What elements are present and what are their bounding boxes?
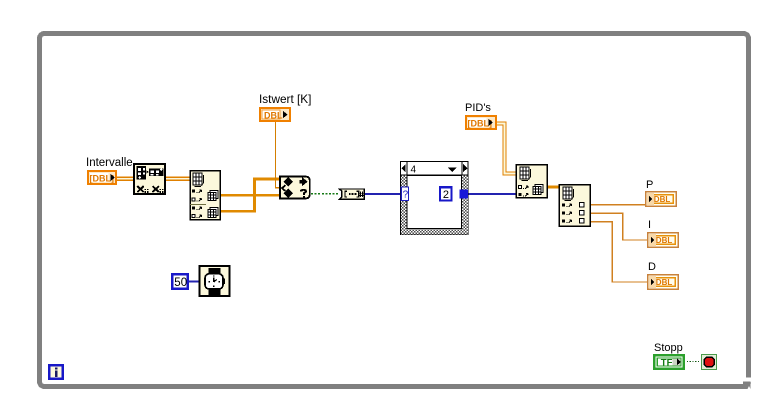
inner border line bbox=[407, 175, 462, 228]
in-range-and-coerce block bbox=[280, 177, 310, 199]
checker bands bbox=[401, 175, 407, 234]
wire: Stopp TF to stop button (green dotted) bbox=[684, 361, 702, 363]
svg-text:PID's: PID's bbox=[465, 102, 491, 114]
row icons section1 bbox=[192, 190, 195, 193]
svg-text:50: 50 bbox=[174, 277, 187, 289]
wire: interpolate to index block (double orange) bbox=[165, 177, 190, 181]
indicator D DBL bbox=[648, 275, 679, 290]
wire: unbundle to D (thin orange) bbox=[590, 222, 648, 282]
wire: bool-array-to-number to case selector (blue) bbox=[365, 193, 401, 195]
wire: coerce to bool-array-to-number (green dashed) bbox=[311, 193, 340, 195]
wire: index array to unbundle (thick orange) bbox=[547, 186, 559, 189]
stop button bbox=[702, 355, 717, 370]
svg-text:Intervalle: Intervalle bbox=[86, 157, 133, 169]
double grid 1 bbox=[208, 191, 218, 201]
svg-text:2: 2 bbox=[443, 189, 449, 201]
constant 2 bbox=[440, 187, 452, 200]
indicator P DBL bbox=[646, 192, 677, 207]
indicator I DBL bbox=[648, 233, 679, 248]
index-array (expanded) block bbox=[190, 171, 220, 220]
control PID's [DBL] bbox=[466, 116, 496, 129]
constant 50 bbox=[172, 274, 188, 289]
unbundle block bbox=[559, 185, 590, 227]
index array block bbox=[516, 165, 547, 198]
outer border bbox=[401, 162, 469, 235]
svg-text:DBL: DBL bbox=[656, 236, 673, 245]
control Intervalle [DBL] bbox=[88, 171, 116, 184]
wire: tunnel to index array (blue) bbox=[467, 193, 516, 195]
control Istwert DBL bbox=[260, 108, 290, 121]
wire: Intervalle to interpolate block (double orange) bbox=[116, 177, 134, 181]
svg-text:4: 4 bbox=[411, 165, 417, 176]
svg-text:I: I bbox=[648, 219, 651, 231]
wire: block2 upper out to coerce lower input (thick orange) bbox=[220, 194, 280, 197]
iteration terminal i bbox=[49, 365, 63, 379]
svg-text:DBL: DBL bbox=[654, 195, 671, 204]
wire: 50 to wait timer (blue) bbox=[188, 281, 199, 283]
control Stopp TF bbox=[654, 355, 684, 369]
svg-text:Stopp: Stopp bbox=[654, 342, 683, 354]
wire: Istwert down to coerce mid input (thin orange) bbox=[276, 122, 281, 188]
wire: PID's control to index array (double orange) bbox=[496, 124, 516, 174]
row icons section2 bbox=[192, 207, 195, 210]
svg-text:DBL: DBL bbox=[264, 110, 283, 120]
boolean-array-to-number block bbox=[339, 189, 364, 199]
case structure bbox=[401, 162, 469, 235]
while loop border bbox=[40, 34, 753, 390]
double grid 2 bbox=[208, 208, 218, 218]
svg-text:DBL: DBL bbox=[656, 278, 673, 287]
output tunnel bbox=[460, 190, 469, 199]
svg-text:TF: TF bbox=[661, 358, 673, 369]
selector tunnel ? bbox=[401, 187, 408, 201]
wire: const 2 to tunnel (blue) bbox=[451, 193, 461, 195]
svg-text:P: P bbox=[646, 179, 653, 191]
wire: unbundle to I (thin orange) bbox=[590, 213, 648, 240]
wire: block2 lower out up to coerce upper input (thick orange) bbox=[220, 179, 280, 211]
svg-text:Istwert [K]: Istwert [K] bbox=[259, 92, 311, 106]
wait (ms) timer block bbox=[200, 266, 230, 296]
selector band bbox=[401, 162, 469, 176]
interpolate-matrix block bbox=[134, 164, 165, 195]
svg-text:?: ? bbox=[403, 190, 409, 201]
wire: unbundle to P (thin orange) bbox=[590, 204, 646, 206]
svg-text:D: D bbox=[648, 261, 656, 273]
